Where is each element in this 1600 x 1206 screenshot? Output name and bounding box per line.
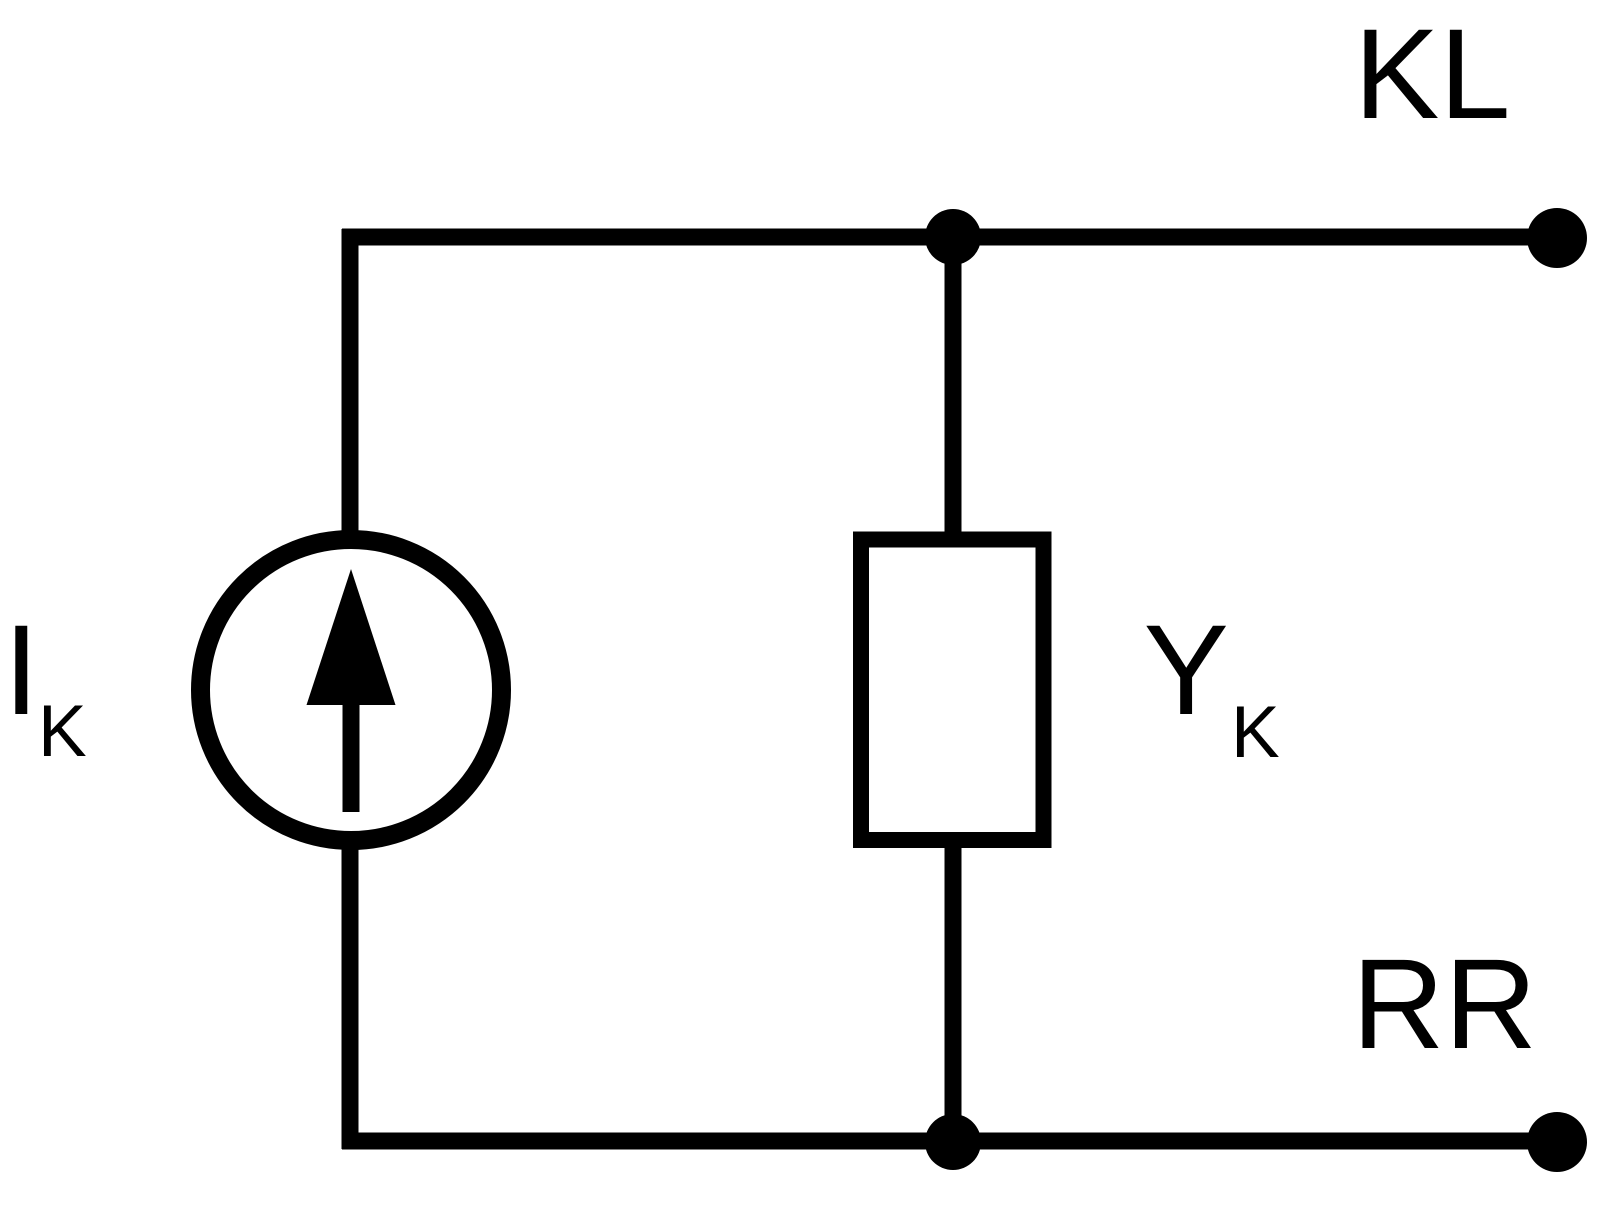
- current source arrow tail: [343, 700, 360, 812]
- svg-text:RR: RR: [1352, 933, 1537, 1076]
- svg-text:K: K: [1231, 692, 1280, 773]
- junction node bottom (dot): [925, 1114, 981, 1170]
- wire bottom horizontal (node RR net): [342, 1133, 1557, 1150]
- wire middle vertical upper (top rail to Y_K): [945, 229, 962, 545]
- wire top horizontal (node KL net): [342, 229, 1557, 246]
- wire middle vertical lower (Y_K to bottom rail): [945, 838, 962, 1149]
- current source arrow head: [307, 569, 396, 705]
- terminal RR (dot): [1527, 1112, 1587, 1172]
- admittance Y_K rectangle body: [861, 540, 1044, 841]
- svg-text:I: I: [4, 599, 40, 742]
- svg-text:Y: Y: [1144, 599, 1229, 742]
- wire left vertical lower (source bottom to bottom rail): [342, 843, 359, 1149]
- svg-text:K: K: [38, 691, 87, 772]
- wire left vertical upper (source top to top rail): [342, 229, 359, 545]
- junction node top (dot): [925, 209, 981, 265]
- svg-text:KL: KL: [1354, 3, 1511, 146]
- terminal KL (dot): [1527, 208, 1587, 268]
- current source I_K circle: [201, 540, 502, 841]
